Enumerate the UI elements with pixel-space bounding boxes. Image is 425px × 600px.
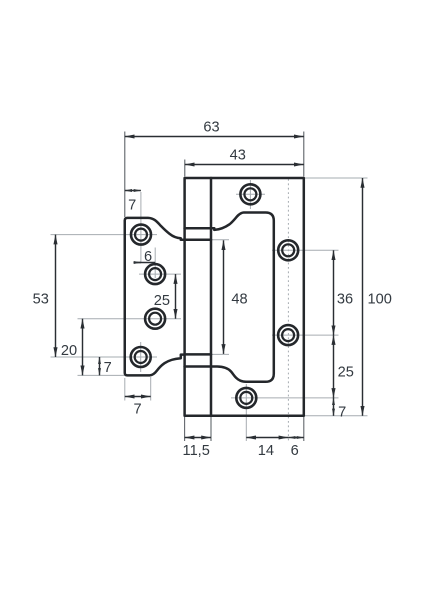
left leaf plate outline	[125, 218, 185, 376]
bottom edge ext for 100 and right 7	[305, 415, 368, 417]
ext left plate left edge up to 63 dim	[124, 132, 126, 218]
hole H3 outer	[145, 309, 165, 329]
hole HRL horizontal centerline / ext for 36 and right 25	[272, 334, 339, 336]
top edge ext for 100	[305, 177, 368, 179]
dim line 63	[125, 136, 304, 138]
dark extension lines for top dims	[125, 132, 304, 218]
dim line 20	[82, 319, 84, 376]
top hole horizontal centerline	[236, 193, 265, 195]
dim line 14	[246, 437, 288, 439]
dim line 7 left vertical	[99, 357, 101, 375]
svg-text:6: 6	[291, 443, 299, 459]
left plate bottom edge ext for 20 and 7	[78, 374, 125, 376]
hole H2 vertical centerline ext for 6	[154, 248, 156, 279]
ext for bottom-left 7, right	[150, 377, 152, 401]
top hole vertical centerline	[249, 180, 251, 209]
right lower hole inner	[282, 329, 294, 341]
right edge ext below part for 6	[303, 417, 305, 441]
svg-text:11,5: 11,5	[183, 443, 210, 459]
hole H3 inner	[149, 313, 161, 325]
svg-text:100: 100	[368, 291, 392, 307]
dim line 53	[55, 235, 57, 357]
dim line 11,5	[185, 437, 211, 439]
bottom hole vertical centerline / ext for 14	[245, 384, 247, 441]
svg-text:25: 25	[338, 364, 354, 380]
hole HB horizontal centerline / ext for right 25 and 7	[231, 397, 339, 399]
svg-text:6: 6	[144, 249, 152, 265]
hole H1 inner	[135, 229, 147, 241]
barrel washer band top upper	[185, 227, 211, 230]
hole H4 outer	[131, 347, 151, 367]
right plate and barrel outer rectangle	[185, 178, 304, 416]
barrel left ext below part for 11,5	[184, 417, 186, 441]
dimension lines	[56, 137, 363, 438]
dimension labels	[33, 119, 392, 459]
hole H2 outer	[145, 264, 165, 284]
hole H2 horizontal centerline / ext for left 25	[139, 273, 181, 275]
top hole inner	[244, 188, 256, 200]
dim line 6 bottom	[288, 437, 303, 439]
dim line 43	[185, 164, 304, 166]
dim line 7 right	[333, 398, 335, 416]
svg-text:7: 7	[104, 360, 112, 376]
top hole outer	[240, 184, 260, 204]
hole H2 inner	[149, 268, 161, 280]
dim line 100	[362, 178, 364, 416]
right plate inner cutout contour	[211, 212, 274, 381]
hole H4 vertical centerline	[140, 342, 142, 372]
dim line 25 left	[175, 274, 177, 319]
ext for bottom-left 7, left	[124, 378, 126, 401]
hole H3 horizontal centerline / ext for 20 and left 25	[78, 318, 182, 320]
barrel washer band top lower	[185, 239, 211, 242]
ext right plate right edge up to 63 dim	[303, 132, 305, 177]
svg-text:7: 7	[128, 198, 136, 214]
dim line 6 left (outside arrow)	[134, 262, 156, 264]
svg-text:14: 14	[258, 443, 274, 459]
hole H4 inner	[135, 351, 147, 363]
svg-text:43: 43	[230, 148, 246, 164]
part outline	[125, 178, 304, 416]
dim line 48	[223, 240, 225, 354]
hole HRU horizontal centerline / ext for 36	[272, 249, 339, 251]
svg-text:36: 36	[337, 291, 353, 307]
bottom hole inner	[240, 392, 252, 404]
dim line 25 right	[333, 335, 335, 398]
right lower hole outer	[278, 325, 298, 345]
barrel right ext below part for 11,5	[210, 417, 212, 441]
right upper hole inner	[282, 244, 294, 256]
svg-text:63: 63	[203, 119, 219, 135]
gray extension and center lines	[51, 178, 368, 441]
right upper hole outer	[278, 240, 298, 260]
barrel washer band bottom upper	[185, 353, 211, 356]
arrow of dim 6	[134, 262, 141, 264]
hole H4 horizontal centerline / ext for 53 and left vertical 7	[51, 356, 158, 358]
svg-text:48: 48	[231, 292, 247, 308]
svg-text:7: 7	[133, 402, 141, 418]
barrel washer band bottom lower	[185, 365, 211, 368]
dim line 7 bottom-left	[125, 396, 151, 398]
bottom hole outer	[236, 388, 256, 408]
dim line 7 top-left	[125, 190, 141, 192]
ext for 48, top	[212, 239, 230, 241]
darker extension lines below part	[185, 417, 304, 441]
hole H1 horizontal centerline / ext for 53	[51, 234, 158, 236]
barrel right edge line	[210, 178, 213, 416]
dim line 36	[333, 250, 335, 335]
svg-text:25: 25	[154, 293, 170, 309]
hole H1 vertical centerline / ext for top 7 and 6	[140, 192, 142, 262]
dotted vertical centerline through right holes	[287, 179, 289, 441]
screw holes	[131, 184, 299, 408]
hole H1 outer	[131, 225, 151, 245]
svg-text:53: 53	[33, 292, 49, 308]
ext barrel left edge up to 43 dim	[184, 160, 186, 177]
ext for 48, bottom	[212, 353, 230, 355]
svg-text:7: 7	[338, 405, 346, 421]
svg-text:20: 20	[61, 343, 77, 359]
